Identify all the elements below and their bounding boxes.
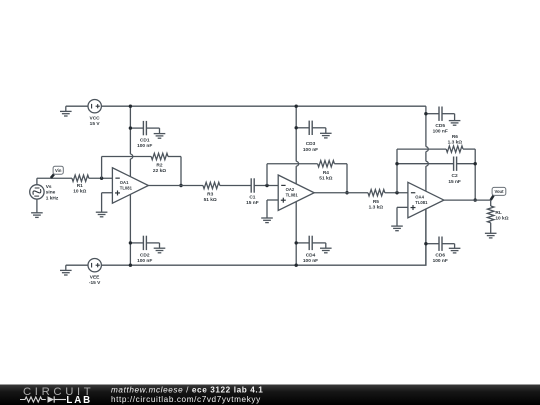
wire hop OA2 supply over feedback2 bbox=[296, 161, 298, 166]
wire CD1 to ground bbox=[159, 128, 161, 133]
svg-text:10 kΩ: 10 kΩ bbox=[495, 216, 508, 222]
node junction CD6 bbox=[424, 242, 427, 245]
wire C1 to OA2 minus bbox=[254, 185, 278, 187]
node flag Vin bbox=[51, 174, 54, 178]
ground at RL bbox=[485, 232, 497, 234]
svg-text:VCC: VCC bbox=[90, 115, 101, 121]
voltage source VCC 15V bbox=[88, 100, 101, 113]
svg-text:TL081: TL081 bbox=[120, 185, 133, 190]
svg-text:R2: R2 bbox=[156, 162, 162, 168]
svg-text:LAB: LAB bbox=[66, 395, 92, 405]
ground under Vs bbox=[36, 199, 38, 213]
svg-text:Vs: Vs bbox=[46, 184, 52, 190]
wire R6 feedback top left bbox=[397, 148, 446, 150]
resistor RL vertical bbox=[490, 200, 492, 206]
node junction C2 right bbox=[474, 162, 477, 165]
svg-text:matthew.mcleese / ece 3122 lab: matthew.mcleese / ece 3122 lab 4.1 bbox=[111, 385, 263, 394]
svg-text:1.3 kΩ: 1.3 kΩ bbox=[369, 205, 384, 211]
node junction feedback3/output bbox=[474, 198, 477, 201]
ground at OA2 plus bbox=[261, 217, 273, 219]
svg-text:http://circuitlab.com/c7vd7yvt: http://circuitlab.com/c7vd7yvtmekyy bbox=[111, 395, 261, 404]
wire Vs to R1 bbox=[37, 177, 72, 179]
node junction C1/feedback2 bbox=[265, 184, 268, 187]
node junction CD5 bbox=[424, 112, 427, 115]
wire feedback3 left vertical bbox=[396, 149, 398, 193]
logo diode symbol bbox=[48, 396, 55, 402]
resistor R6 bbox=[446, 146, 463, 152]
svg-text:Vin: Vin bbox=[55, 168, 62, 173]
svg-text:OA4: OA4 bbox=[415, 194, 424, 199]
wire feedback1 top left bbox=[102, 156, 152, 158]
svg-text:Vout: Vout bbox=[495, 189, 505, 194]
op-amp OA2 TL081 bbox=[278, 175, 314, 211]
node junction feedback2/output bbox=[345, 191, 348, 194]
wire feedback1 right vertical bbox=[180, 157, 182, 186]
wire C2 branch right bbox=[457, 163, 476, 165]
svg-text:R5: R5 bbox=[373, 199, 379, 205]
wire R6 feedback top right bbox=[463, 148, 475, 150]
svg-text:OA2: OA2 bbox=[286, 187, 295, 192]
svg-text:15 nF: 15 nF bbox=[448, 179, 461, 185]
wire R3 to C1 bbox=[220, 185, 251, 187]
ground at VCC bbox=[65, 106, 67, 111]
ground at OA1 plus bbox=[96, 211, 108, 213]
wire OA2 output bbox=[314, 192, 368, 194]
svg-text:CD1: CD1 bbox=[140, 137, 150, 143]
ground at OA4 plus bbox=[391, 225, 403, 227]
svg-text:TL081: TL081 bbox=[415, 200, 428, 205]
wire R1 to OA1 minus input bbox=[89, 177, 113, 179]
svg-text:100 nF: 100 nF bbox=[137, 143, 152, 149]
svg-text:OA1: OA1 bbox=[120, 180, 129, 185]
wire OA1 output bbox=[148, 185, 203, 187]
node junction C2 left bbox=[395, 162, 398, 165]
wire OA1 VCC supply upper bbox=[129, 106, 131, 154]
wire bottom VEE power rail (with corner up to OA4) bbox=[101, 209, 426, 265]
svg-text:1.3 kΩ: 1.3 kΩ bbox=[448, 140, 463, 146]
wire hop OA4 supply over R6 bbox=[426, 147, 428, 152]
svg-text:RL: RL bbox=[495, 210, 501, 216]
node junction CD1 bbox=[129, 126, 132, 129]
wire feedback1 top right bbox=[168, 156, 181, 158]
svg-text:sine: sine bbox=[46, 190, 56, 196]
wire R5 to OA4 minus bbox=[385, 192, 408, 194]
wire OA1 plus stub bbox=[102, 192, 113, 194]
node junction feedback1/output bbox=[179, 184, 182, 187]
wire C2 branch left bbox=[397, 163, 454, 165]
svg-text:100 nF: 100 nF bbox=[303, 147, 318, 153]
node junction OA1 supply at bottom rail bbox=[129, 264, 132, 267]
node junction OA2 supply at rail bbox=[295, 105, 298, 108]
svg-text:22 kΩ: 22 kΩ bbox=[153, 168, 166, 174]
capacitor CD5 100nF bbox=[426, 113, 439, 115]
wire feedback2 left vertical bbox=[266, 164, 268, 186]
capacitor CD2 100nF bbox=[130, 242, 143, 244]
node junction OA1 supply at rail bbox=[129, 105, 132, 108]
resistor R4 bbox=[318, 161, 335, 167]
op-amp OA1 TL081 bbox=[112, 168, 148, 204]
svg-text:100 nF: 100 nF bbox=[433, 129, 448, 135]
svg-text:VEE: VEE bbox=[90, 274, 100, 280]
svg-text:15 nF: 15 nF bbox=[246, 200, 259, 206]
capacitor CD6 100nF bbox=[426, 243, 439, 245]
svg-text:TL081: TL081 bbox=[286, 193, 299, 198]
svg-text:100 nF: 100 nF bbox=[137, 258, 152, 264]
node junction CD4 bbox=[295, 241, 298, 244]
wire OA2 VEE supply lower bbox=[295, 202, 297, 266]
svg-text:51 kΩ: 51 kΩ bbox=[319, 176, 332, 182]
resistor R2 bbox=[151, 153, 168, 159]
wire OA1 VEE supply lower bbox=[129, 194, 131, 265]
wire feedback3 right vertical bbox=[474, 149, 476, 200]
svg-text:CD6: CD6 bbox=[435, 252, 445, 258]
svg-text:100 nF: 100 nF bbox=[433, 258, 448, 264]
wire CD6 to ground bbox=[454, 244, 456, 248]
ground at CD5 bbox=[449, 120, 461, 122]
wire hop OA4 supply over C2 bbox=[426, 161, 428, 166]
svg-text:51 kΩ: 51 kΩ bbox=[204, 197, 217, 203]
svg-text:1 kHz: 1 kHz bbox=[46, 195, 59, 201]
resistor R5 bbox=[368, 190, 385, 196]
ground at CD3 bbox=[320, 132, 332, 134]
node junction CD2 bbox=[129, 241, 132, 244]
wire feedback1 left vertical bbox=[101, 157, 103, 179]
wire OA1 plus down bbox=[101, 193, 103, 212]
capacitor C1 15nF bbox=[250, 178, 252, 192]
node junction at R1/feedback bbox=[100, 177, 103, 180]
wire OA2 VCC supply upper bbox=[295, 106, 297, 161]
footer bar bbox=[0, 385, 540, 405]
wire CD3 to ground bbox=[325, 128, 327, 133]
wire feedback2 top left bbox=[267, 163, 318, 165]
wire OA4 output bbox=[444, 199, 491, 201]
resistor R3 bbox=[203, 182, 220, 188]
ground at VEE bbox=[65, 265, 67, 270]
wire VEE to ground bbox=[66, 264, 88, 266]
wire VCC to ground bbox=[66, 105, 88, 107]
wire top VCC power rail bbox=[101, 105, 426, 107]
svg-text:CD3: CD3 bbox=[306, 141, 316, 147]
svg-text:R4: R4 bbox=[323, 170, 329, 176]
node junction R5/feedback3 bbox=[395, 191, 398, 194]
svg-text:R6: R6 bbox=[452, 134, 458, 140]
svg-text:C2: C2 bbox=[452, 173, 458, 179]
wire OA2 plus down bbox=[266, 200, 268, 218]
wire CD4 to ground bbox=[325, 243, 327, 248]
wire OA4 plus down bbox=[396, 207, 398, 226]
wire OA4 plus stub bbox=[397, 206, 408, 208]
svg-text:CD2: CD2 bbox=[140, 252, 150, 258]
resistor R1 bbox=[72, 175, 89, 181]
wire hop OA1 supply over feedback1 bbox=[130, 154, 132, 159]
capacitor C2 15nF bbox=[453, 157, 455, 171]
wire Vs up to input row bbox=[36, 178, 38, 185]
node flag Vout bbox=[491, 196, 494, 200]
voltage source VEE -15V bbox=[88, 259, 101, 272]
ground at CD4 bbox=[320, 247, 332, 249]
svg-text:CD4: CD4 bbox=[306, 252, 316, 258]
wire feedback2 top right bbox=[334, 163, 347, 165]
wire OA4 VCC supply upper (from rail corner) bbox=[425, 106, 427, 147]
svg-text:10 kΩ: 10 kΩ bbox=[73, 189, 86, 195]
voltage source Vs sine 1kHz bbox=[30, 185, 44, 199]
logo resistor symbol bbox=[20, 397, 46, 402]
svg-text:R3: R3 bbox=[207, 192, 213, 198]
wire CD5 to ground bbox=[454, 114, 456, 121]
op-amp OA4 TL081 bbox=[408, 182, 444, 218]
capacitor CD3 100nF bbox=[296, 127, 309, 129]
svg-text:15 V: 15 V bbox=[90, 121, 101, 127]
node junction OA2 supply at bottom rail bbox=[295, 264, 298, 267]
ground at CD1 bbox=[154, 133, 166, 135]
svg-text:R1: R1 bbox=[77, 183, 83, 189]
ground at CD2 bbox=[154, 247, 166, 249]
wire CD2 to ground bbox=[159, 243, 161, 248]
svg-text:C1: C1 bbox=[249, 194, 255, 200]
capacitor CD4 100nF bbox=[296, 242, 309, 244]
svg-text:100 nF: 100 nF bbox=[303, 258, 318, 264]
wire feedback2 right vertical bbox=[346, 164, 348, 193]
wire OA4 VEE supply lower bbox=[425, 209, 427, 265]
svg-text:-15 V: -15 V bbox=[89, 280, 101, 286]
ground at CD6 bbox=[449, 247, 461, 249]
wire OA2 plus stub bbox=[267, 199, 278, 201]
capacitor CD1 100nF bbox=[130, 127, 143, 129]
node junction CD3 bbox=[295, 126, 298, 129]
svg-text:CD5: CD5 bbox=[435, 123, 445, 129]
